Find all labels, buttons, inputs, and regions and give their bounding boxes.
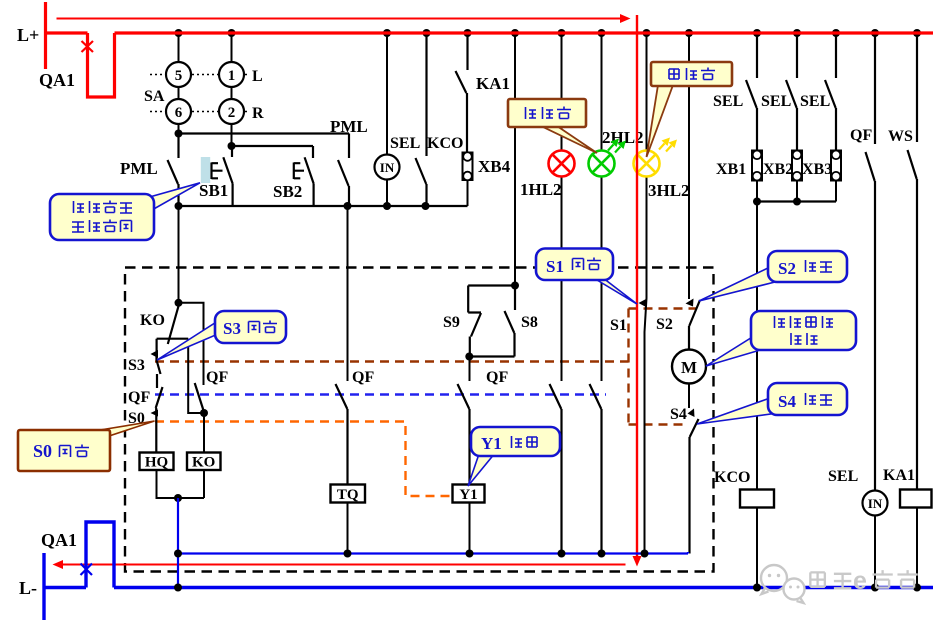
disconnect QA1 cross (bottom) — [81, 564, 93, 576]
junction dots on bar B — [175, 202, 430, 210]
light rays (green) — [608, 139, 626, 153]
SA selector column wires — [179, 33, 232, 146]
svg-text:6: 6 — [175, 105, 183, 121]
node S9/S8 top junction — [511, 282, 519, 290]
coil TQ — [331, 485, 366, 504]
current flow arrow (vertical, red) — [633, 15, 642, 567]
callout 储能完成进行合闸 — [50, 194, 154, 240]
wire HQ/KO feeder — [178, 206, 180, 303]
contact SEL (XB3 column) — [825, 33, 836, 151]
contact QF (2HL2 branch) — [590, 384, 602, 554]
svg-text:KA1: KA1 — [476, 74, 510, 93]
svg-text:S1: S1 — [610, 317, 627, 334]
wire bar under SA contact 6 — [179, 132, 350, 134]
svg-text:XB1: XB1 — [716, 161, 746, 178]
callout pointer (绿灯亮) — [541, 126, 597, 153]
node KO coil top junction — [200, 409, 208, 417]
wire lamp 1HL2 branch — [561, 33, 563, 381]
watermark wechat logo — [761, 565, 805, 603]
coil KCO — [740, 490, 774, 588]
svg-text:Y1: Y1 — [459, 487, 477, 503]
fuse XB1 — [752, 151, 762, 202]
orange dashed S0 to Y1 path — [155, 422, 452, 497]
callout pointer (S1闭合) — [592, 277, 637, 304]
contact QF (KO-coil branch) — [195, 383, 204, 412]
svg-text:S2: S2 — [656, 316, 673, 333]
blue dashed QF trip line — [155, 393, 606, 395]
node XB2 junction — [793, 198, 801, 206]
wire Y1 branch — [469, 357, 471, 382]
wire motor to S4 — [688, 384, 690, 409]
svg-text:IN: IN — [380, 160, 395, 175]
contact SEL (XB1 column) — [746, 33, 757, 151]
svg-text:KCO: KCO — [714, 469, 750, 486]
svg-text:M: M — [681, 358, 697, 377]
svg-text:S2: S2 — [778, 259, 796, 278]
svg-text:QF: QF — [128, 389, 150, 406]
SA contact 5 — [166, 62, 191, 87]
contact KO — [157, 305, 189, 354]
svg-text:QA1: QA1 — [39, 70, 75, 90]
wire Y1 coil to bottom bus — [469, 503, 471, 554]
svg-text:S3: S3 — [128, 357, 145, 374]
svg-text:KO: KO — [140, 312, 165, 329]
svg-text:QF: QF — [850, 127, 872, 144]
contact SEL (XB2 column) — [786, 33, 797, 151]
contact QF (Y1 branch) — [458, 384, 470, 485]
svg-text:PML: PML — [120, 159, 158, 178]
lamp 3HL2 — [634, 151, 660, 177]
svg-text:XB2: XB2 — [763, 161, 793, 178]
callout pointer (储能完成) — [146, 183, 200, 210]
callout S2断开 — [768, 251, 847, 282]
callout S3闭合 — [215, 311, 286, 343]
callout pointer (储能电机停转) — [706, 336, 762, 366]
svg-text:SEL: SEL — [761, 93, 791, 110]
callout pointer (黄灯亮) — [647, 85, 674, 157]
svg-text:3HL2: 3HL2 — [648, 181, 690, 200]
contact S8 — [505, 286, 516, 357]
callout pointer (S0闭合) — [94, 421, 155, 437]
pushbutton SB1 — [212, 146, 233, 206]
svg-text:QF: QF — [206, 369, 228, 386]
svg-text:KCO: KCO — [427, 135, 463, 152]
L- bus (blue) with QA1 jog — [44, 522, 933, 620]
coil Y1 — [453, 485, 485, 504]
callout S0闭合 — [18, 430, 110, 471]
contact QF (TQ branch) — [336, 384, 348, 485]
wire lamp 3HL2 / S1 branch — [645, 33, 647, 554]
svg-text:QA1: QA1 — [41, 530, 77, 550]
callout pointer (S4断开) — [697, 398, 778, 424]
svg-text:WS: WS — [888, 128, 913, 145]
contact QF (left chain) — [156, 387, 163, 412]
SA contact 6 — [166, 99, 191, 124]
wire S9/S8 bottom bar — [469, 355, 515, 357]
node SA-6 junction — [175, 130, 183, 138]
svg-text:PML: PML — [330, 117, 368, 136]
svg-text:KO: KO — [192, 455, 215, 471]
SA contact 2 — [219, 99, 244, 124]
contact S9 — [468, 286, 481, 357]
lamp 2HL2 — [589, 151, 615, 177]
wire S9/S8 top bar — [468, 284, 515, 286]
callout 储能电机停转 — [751, 311, 856, 350]
wire TQ branch — [347, 206, 349, 381]
callout Y1得电 — [471, 427, 560, 456]
node SA-2 junction — [228, 142, 236, 150]
svg-text:2: 2 — [228, 105, 236, 121]
junction bar node B — [179, 205, 468, 207]
contact KCO — [416, 33, 427, 206]
light rays (yellow) — [659, 138, 677, 152]
svg-text:S4: S4 — [670, 406, 687, 423]
coil KA1 — [900, 490, 932, 588]
contact S4 — [690, 419, 699, 554]
node in-box bus junctions — [174, 550, 649, 558]
svg-text:L+: L+ — [17, 25, 39, 45]
callout pointer (S3闭合) — [157, 321, 218, 360]
svg-text:HQ: HQ — [145, 455, 169, 471]
node L- bus junctions — [174, 584, 921, 592]
wire XB junction bar — [757, 200, 836, 202]
SA dotted linkage lines — [150, 75, 249, 112]
node KO split junction — [175, 299, 183, 307]
svg-text:SEL: SEL — [390, 135, 420, 152]
coil HQ — [140, 453, 174, 471]
wire to KCO coil — [756, 202, 758, 490]
limit switch S1 arrow — [639, 299, 647, 307]
watermark text 电工e学堂 — [810, 567, 917, 595]
wire TQ coil to bottom bus — [347, 503, 349, 554]
svg-text:1HL2: 1HL2 — [520, 180, 562, 199]
callout S1闭合 — [536, 249, 613, 281]
limit switch S4 arrow — [688, 409, 695, 418]
wire motor branch — [688, 33, 690, 299]
svg-text:Y1: Y1 — [481, 434, 502, 453]
wire QF-aux branch — [179, 303, 204, 385]
svg-text:KA1: KA1 — [883, 467, 915, 484]
contact S2 — [689, 300, 700, 350]
L+ bus (red) with QA1 jog — [46, 2, 934, 97]
svg-text:SEL: SEL — [800, 93, 830, 110]
contact WS — [908, 33, 918, 490]
svg-text:S9: S9 — [443, 314, 460, 331]
pushbutton SB1 highlight — [201, 157, 210, 183]
current flow arrow (top, red) — [57, 14, 631, 23]
svg-text:SA: SA — [144, 88, 165, 105]
node HQ/KO rejoin — [174, 494, 182, 502]
svg-text:S3: S3 — [223, 319, 241, 338]
callout pointer (Y1得电) — [468, 454, 493, 486]
svg-text:e: e — [853, 567, 867, 595]
svg-text:5: 5 — [175, 68, 183, 84]
svg-text:SB2: SB2 — [273, 182, 302, 201]
limit switch S0 — [155, 413, 157, 453]
svg-text:L-: L- — [19, 578, 37, 598]
callout S4断开 — [768, 383, 847, 415]
svg-text:R: R — [252, 105, 264, 122]
contact PML (left) — [168, 134, 179, 207]
wire in-box negative bus (blue) — [178, 498, 688, 588]
svg-text:QF: QF — [352, 369, 374, 386]
supervision lamp SEL IN — [375, 33, 400, 206]
lamp 1HL2 — [549, 151, 575, 177]
svg-text:L: L — [252, 68, 263, 85]
svg-text:S1: S1 — [546, 257, 564, 276]
contact QF (right column) — [866, 33, 876, 491]
limit switch S3 arrow — [151, 350, 159, 358]
wire to KO coil — [203, 413, 205, 453]
limit switch S0 arrow — [151, 410, 159, 417]
node XB1 junction — [753, 198, 761, 206]
wire S9/S8 feeder — [514, 33, 516, 286]
current flow arrow (bottom, red) — [53, 560, 626, 569]
junction dots on L+ bus — [175, 29, 922, 37]
limit switch S3 — [157, 354, 161, 388]
fuse XB4 — [463, 152, 473, 206]
dashed relay-room boundary box — [125, 268, 714, 572]
svg-text:S8: S8 — [521, 314, 538, 331]
motor M — [672, 350, 706, 384]
brown dashed signal path S3 to S2/S4 — [155, 309, 697, 425]
wire HQ/KO rejoin — [157, 470, 205, 498]
callout 绿灯亮 — [508, 99, 586, 127]
wire bar under SA contact 2 — [232, 145, 314, 147]
svg-text:SEL: SEL — [828, 468, 858, 485]
node S9/S8 bottom junction — [465, 353, 473, 361]
contact QF (1HL2 branch) — [550, 384, 562, 554]
limit switch S2 arrow — [686, 299, 694, 307]
svg-text:XB3: XB3 — [802, 161, 832, 178]
svg-text:XB4: XB4 — [478, 157, 511, 176]
contact KA1 — [456, 33, 468, 152]
callout 黄灯亮 — [651, 62, 732, 86]
svg-text:SEL: SEL — [713, 93, 743, 110]
disconnect QA1 cross (top) — [82, 41, 94, 52]
svg-text:QF: QF — [486, 369, 508, 386]
callout pointer (S2断开) — [699, 267, 777, 301]
supervision lamp SEL IN (bottom right) — [863, 491, 888, 588]
coil KO — [187, 453, 221, 471]
SA contact 1 — [219, 62, 244, 87]
fuse XB2 — [792, 151, 802, 202]
pushbutton SB2 — [294, 146, 314, 206]
svg-text:SB1: SB1 — [199, 181, 228, 200]
fuse XB3 — [831, 151, 841, 202]
wire lamp 2HL2 branch — [601, 33, 603, 381]
svg-text:TQ: TQ — [337, 487, 359, 503]
contact PML (right) — [338, 134, 349, 207]
svg-text:S4: S4 — [778, 392, 796, 411]
wire KO bar right leg to KO coil node — [188, 339, 204, 413]
svg-text:S0: S0 — [33, 441, 52, 461]
svg-text:1: 1 — [228, 68, 236, 84]
svg-text:IN: IN — [868, 496, 883, 511]
